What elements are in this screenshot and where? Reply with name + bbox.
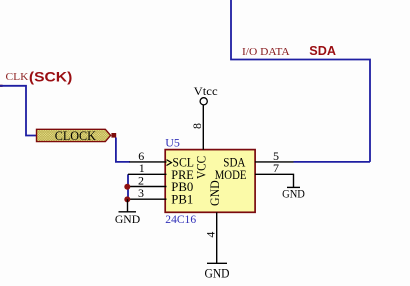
- svg-text:GND: GND: [115, 212, 141, 226]
- svg-text:CLOCK: CLOCK: [55, 129, 96, 143]
- CLOCK flag tip arrow: [111, 133, 116, 138]
- pin 2 PB0 stub: [127, 186, 167, 188]
- junction dot pin3: [124, 196, 130, 202]
- wire net SDA top: vertical from top edge, across under I/O DATA label, down to pin 5: [231, 0, 370, 162]
- pin 1 PRE stub: [128, 173, 167, 175]
- svg-text:Vtcc: Vtcc: [194, 84, 218, 98]
- wire left bus vertical joining pins 1,2,3: [127, 174, 129, 200]
- op IC U5 body: [165, 150, 255, 213]
- svg-text:U5: U5: [165, 135, 180, 149]
- ground symbol bottom: [205, 263, 230, 280]
- pin 6 SCL stub: [130, 161, 167, 163]
- svg-text:MODE: MODE: [215, 168, 247, 182]
- pin 5 SDA stub: [255, 161, 294, 163]
- svg-text:GND: GND: [282, 187, 305, 201]
- svg-text:VCC: VCC: [195, 156, 209, 179]
- power node Vtcc open circle: [200, 98, 207, 105]
- pin 3 PB1 stub: [127, 198, 167, 200]
- wire from CLOCK flag tip down to pin 6: [116, 138, 130, 162]
- svg-text:(SCK): (SCK): [29, 69, 72, 85]
- svg-text:GND: GND: [208, 180, 222, 206]
- svg-text:I/O DATA: I/O DATA: [242, 46, 290, 58]
- off-page connector stub at left edge: [0, 85, 3, 87]
- svg-text:8: 8: [190, 123, 204, 129]
- svg-text:SDA: SDA: [309, 44, 336, 58]
- CLOCK flag body: [37, 129, 111, 143]
- svg-text:3: 3: [138, 186, 144, 200]
- svg-text:4: 4: [203, 232, 217, 238]
- junction dot pin2: [124, 184, 130, 190]
- pin 4 GND stub vertical: [216, 212, 218, 263]
- ground symbol right: [282, 187, 305, 201]
- wire from pin 5 to SDA net: [294, 161, 371, 163]
- IC pin name SCL with clock chevron: [167, 156, 195, 170]
- pin 7 MODE stub and wire down: [255, 174, 294, 187]
- svg-text:GND: GND: [205, 267, 230, 281]
- pin 8 VCC stub vertical: [202, 105, 204, 150]
- wire CLK net: from left edge under CLK, down, right into CLOCK flag: [0, 86, 37, 136]
- svg-text:CLK: CLK: [6, 71, 29, 83]
- svg-text:7: 7: [273, 161, 279, 175]
- svg-text:24C16: 24C16: [165, 212, 196, 226]
- ground symbol left: [115, 199, 141, 226]
- svg-text:PB1: PB1: [171, 193, 193, 207]
